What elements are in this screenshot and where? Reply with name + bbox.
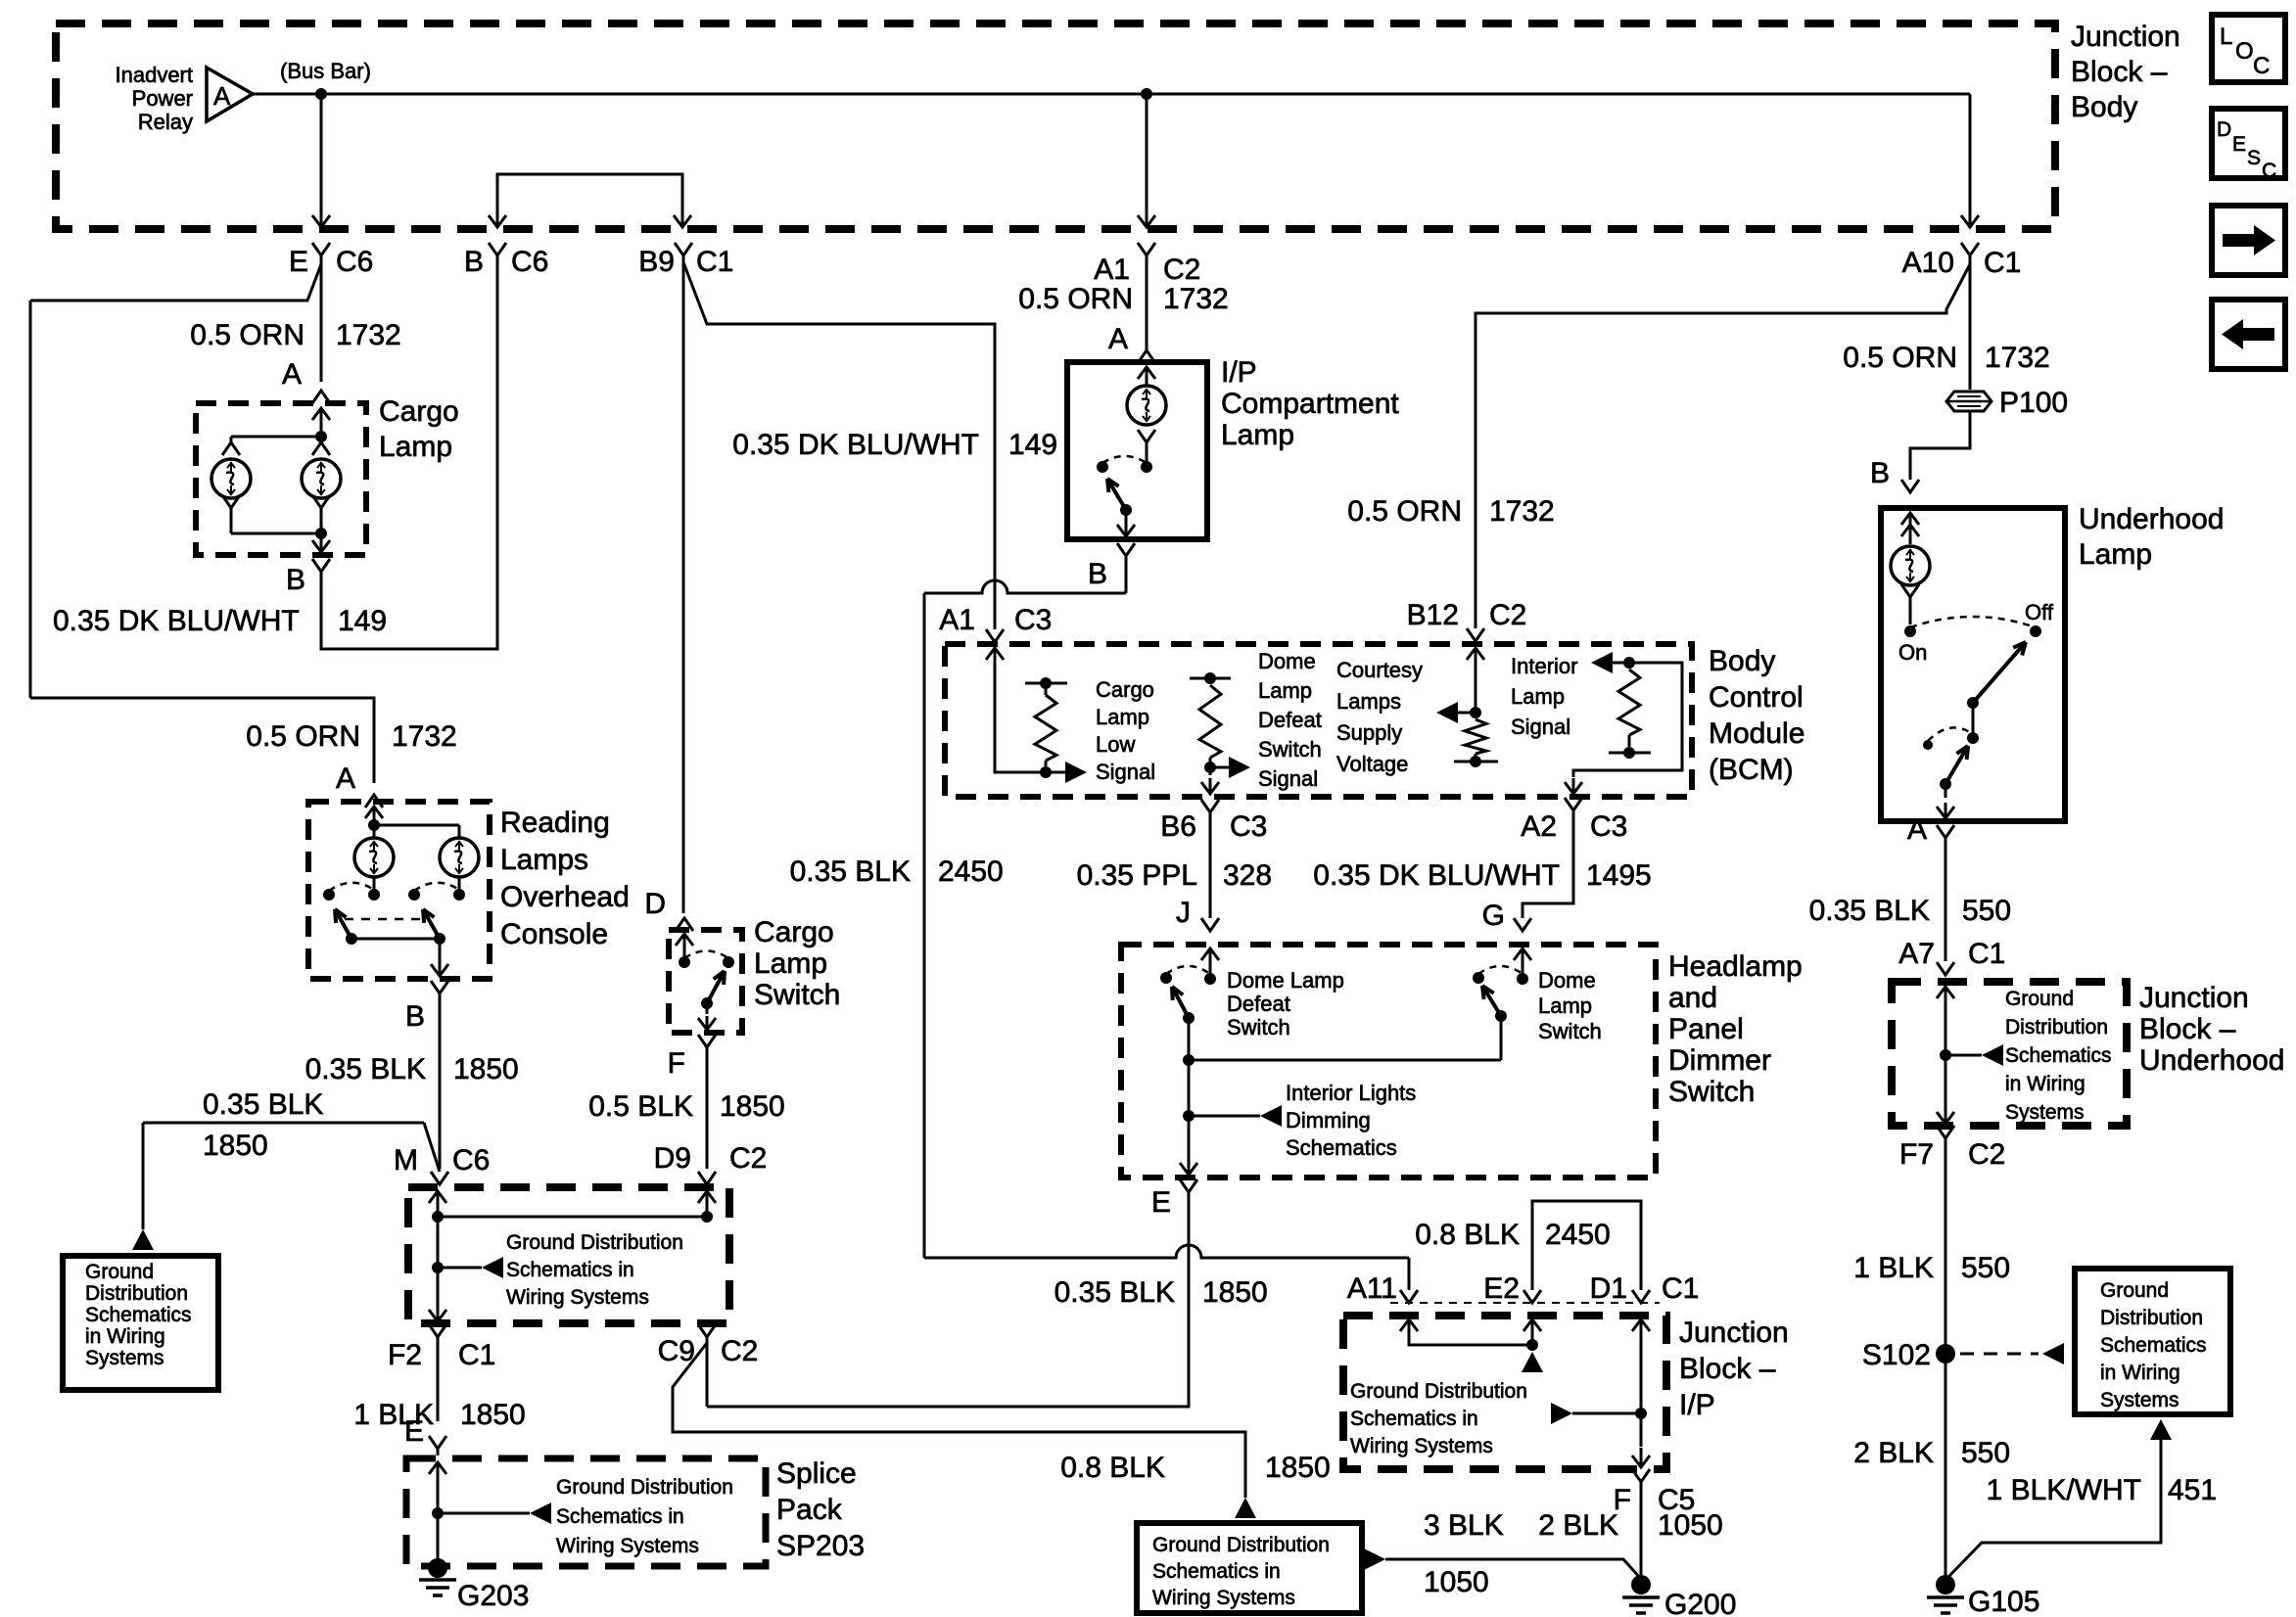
cargo lamp left return — [222, 495, 240, 508]
connector A2/C3 — [1565, 798, 1582, 810]
svg-text:Schematics: Schematics — [85, 1304, 192, 1326]
wire 0.35 BLK 1850 dimmer E to C9/C2 — [707, 1192, 1189, 1407]
svg-text:1850: 1850 — [1202, 1276, 1268, 1309]
svg-text:550: 550 — [1961, 1252, 2010, 1284]
lamp cargo right — [320, 437, 323, 442]
cargo switch contacts — [679, 956, 690, 968]
svg-text:Voltage: Voltage — [1336, 752, 1408, 776]
svg-text:1850: 1850 — [1265, 1452, 1331, 1484]
jb-body exit arrow — [437, 1302, 440, 1321]
reading right switch — [458, 877, 461, 890]
wire 0.5 ORN 1732 A1/C2 to lamp A — [1146, 255, 1148, 350]
jb-body internal link — [437, 1215, 440, 1302]
svg-text:3 BLK: 3 BLK — [1424, 1509, 1504, 1542]
jb-ip E2 feed arrow — [1531, 1319, 1534, 1343]
svg-text:Schematics in: Schematics in — [556, 1505, 684, 1528]
svg-text:F: F — [668, 1047, 685, 1080]
wire 1 BLK 1850 to splice pack E — [437, 1337, 440, 1421]
svg-text:Dome: Dome — [1538, 968, 1596, 993]
connector B6/C3 — [1201, 800, 1219, 812]
svg-text:A: A — [1108, 323, 1128, 355]
svg-text:G105: G105 — [1968, 1586, 2039, 1617]
svg-text:550: 550 — [1962, 895, 2011, 927]
connector dimmer E — [1180, 1179, 1197, 1192]
dome lamp switch lever — [1495, 1010, 1507, 1022]
svg-text:Control: Control — [1709, 681, 1804, 714]
svg-text:E: E — [2232, 133, 2246, 156]
svg-text:D1: D1 — [1590, 1272, 1627, 1305]
svg-text:S102: S102 — [1862, 1339, 1931, 1371]
svg-text:0.35 BLK: 0.35 BLK — [1054, 1276, 1175, 1309]
next page arrow box — [2212, 206, 2285, 275]
connector J — [1201, 918, 1219, 931]
cargo switch feed arrow — [683, 934, 686, 962]
splice S102 — [1936, 1344, 1955, 1363]
svg-text:Lamps: Lamps — [500, 844, 588, 876]
underhood lamp solid box — [1881, 508, 2065, 821]
svg-text:E: E — [289, 246, 308, 278]
wire 0.8 BLK 1850 C9 to ground reference — [673, 1343, 1245, 1498]
svg-text:Junction: Junction — [2071, 21, 2180, 53]
reference arrow ground distribution (jb-underhood) — [1945, 1054, 1982, 1057]
svg-text:C6: C6 — [336, 246, 373, 278]
ground G200 — [1631, 1575, 1651, 1594]
underhood lamp to On contact — [1901, 584, 1919, 597]
svg-text:149: 149 — [338, 605, 387, 637]
underhood switch lever 1 — [1967, 697, 1979, 709]
svg-text:1732: 1732 — [392, 720, 457, 753]
svg-text:E2: E2 — [1483, 1272, 1520, 1305]
svg-text:Switch: Switch — [1668, 1076, 1755, 1108]
svg-text:C9: C9 — [658, 1335, 695, 1367]
svg-text:B9: B9 — [638, 246, 675, 278]
svg-text:Lamp: Lamp — [1221, 419, 1294, 451]
svg-text:A10: A10 — [1902, 247, 1954, 279]
svg-text:Panel: Panel — [1668, 1013, 1744, 1045]
wire 0.5 BLK 1850 F to D9/C2 — [706, 1047, 709, 1169]
svg-text:Block –: Block – — [2139, 1013, 2236, 1045]
jb-ip A11 feed arrow — [1408, 1319, 1411, 1343]
svg-text:1732: 1732 — [1163, 283, 1229, 315]
svg-text:149: 149 — [1008, 429, 1057, 461]
wire branch diagonal into M connector — [424, 1123, 440, 1172]
svg-text:0.8 BLK: 0.8 BLK — [1060, 1452, 1165, 1484]
connector splice E — [429, 1436, 446, 1449]
svg-text:Lamps: Lamps — [1336, 689, 1401, 714]
svg-text:M: M — [394, 1144, 418, 1177]
underhood switch lever 2 — [1940, 778, 1951, 790]
svg-text:1 BLK: 1 BLK — [1853, 1252, 1934, 1284]
svg-text:Wiring Systems: Wiring Systems — [556, 1535, 699, 1557]
svg-text:Ground Distribution: Ground Distribution — [556, 1476, 733, 1499]
dome lamp switch wire to link — [1500, 1016, 1503, 1060]
connector A11 — [1400, 1290, 1418, 1303]
svg-text:0.35 BLK: 0.35 BLK — [305, 1053, 426, 1086]
headlamp and panel dimmer switch dashed box — [1121, 945, 1656, 1178]
reading switch common bar — [351, 938, 440, 941]
ip switch exit arrow — [1125, 510, 1128, 519]
svg-text:Inadvert: Inadvert — [116, 63, 194, 87]
off-page triangle to ground distribution middle — [1235, 1498, 1256, 1518]
wire P100 to underhood B — [1910, 411, 1970, 480]
svg-text:Signal: Signal — [1258, 766, 1318, 791]
svg-text:1732: 1732 — [1985, 342, 2050, 374]
dashed reference line S102 — [1960, 1353, 2038, 1356]
wire bus to E/C6 with arrow — [320, 94, 323, 204]
svg-text:328: 328 — [1223, 859, 1272, 892]
bcm cargo lamp low signal input arrow — [994, 648, 997, 673]
svg-text:G: G — [1482, 900, 1505, 932]
connector F/C5 — [1632, 1469, 1650, 1482]
jb-ip internal link — [1409, 1343, 1532, 1345]
svg-text:451: 451 — [2168, 1474, 2217, 1506]
node defeat-dome link — [1183, 1054, 1195, 1066]
wire 0.35 DK BLU/WHT 1495 to G — [1523, 810, 1573, 918]
svg-text:B: B — [1088, 558, 1107, 590]
svg-text:Reading: Reading — [500, 807, 610, 839]
svg-text:Lamp: Lamp — [2079, 538, 2152, 571]
svg-text:Schematics in: Schematics in — [1350, 1408, 1478, 1430]
wire C9 to E-wire — [706, 1337, 709, 1407]
svg-text:Lamp: Lamp — [379, 431, 452, 463]
connector A7/C1 — [1937, 962, 1954, 975]
svg-text:Courtesy: Courtesy — [1336, 658, 1423, 682]
svg-text:C1: C1 — [1984, 247, 2021, 279]
connector B9/C1 — [675, 243, 692, 255]
wire bus bar — [253, 93, 1970, 96]
wire 1 BLK 550 to S102 — [1945, 1138, 1947, 1354]
desc box — [2212, 109, 2285, 178]
node dimming tap — [1183, 1110, 1195, 1122]
connector underhood A — [1937, 825, 1954, 838]
wire 0.5 ORN 1732 from E/C6 to cargo lamp A — [320, 255, 323, 382]
wire 0.35 PPL 328 to J — [1209, 812, 1212, 918]
svg-text:Console: Console — [500, 918, 608, 950]
svg-text:G203: G203 — [457, 1580, 529, 1612]
svg-text:B: B — [405, 1000, 425, 1033]
svg-text:Cargo: Cargo — [1096, 677, 1154, 702]
svg-text:B6: B6 — [1160, 810, 1196, 843]
reference arrow ground distribution (jb-body) — [438, 1267, 482, 1270]
svg-text:J: J — [1176, 897, 1191, 929]
svg-text:Distribution: Distribution — [2100, 1307, 2203, 1329]
node reading feed split — [368, 819, 380, 831]
wire link to dome lamp switch — [1189, 1059, 1501, 1062]
cargo lamp exit arrow — [320, 534, 323, 552]
ip lamp feed arrow — [1146, 367, 1148, 387]
svg-text:Distribution: Distribution — [2005, 1016, 2108, 1039]
svg-text:Lamp: Lamp — [1096, 705, 1149, 729]
node bus-E tap — [315, 88, 327, 100]
bcm interior signal output wiring — [1573, 663, 1682, 777]
svg-text:0.35 BLK: 0.35 BLK — [1809, 895, 1930, 927]
svg-text:and: and — [1668, 982, 1717, 1014]
lamp ip compartment — [1127, 386, 1166, 425]
svg-text:0.5 BLK: 0.5 BLK — [588, 1090, 693, 1123]
svg-text:C2: C2 — [1489, 599, 1526, 631]
underhood feed arrow double — [1909, 513, 1912, 544]
resistor dome lamp defeat switch signal — [1204, 672, 1216, 684]
svg-text:Lamp: Lamp — [754, 947, 827, 980]
svg-text:B: B — [464, 246, 484, 278]
reference arrow into jb-ip — [1551, 1403, 1572, 1424]
jb-body M feed arrow — [437, 1191, 440, 1215]
svg-text:L: L — [2220, 23, 2232, 50]
svg-text:F7: F7 — [1899, 1138, 1934, 1171]
svg-text:1732: 1732 — [336, 319, 401, 351]
svg-text:Supply: Supply — [1336, 720, 1402, 745]
wire left rail to reading lamps A — [30, 698, 374, 783]
cargo lamp dashed box — [196, 403, 366, 555]
junction block I/P dashed box — [1343, 1316, 1666, 1469]
svg-text:D: D — [644, 888, 666, 920]
svg-text:Dimmer: Dimmer — [1668, 1044, 1771, 1077]
defeat switch wire down — [1188, 1018, 1191, 1116]
jb-ip D1 feed arrow — [1640, 1319, 1643, 1343]
svg-text:Module: Module — [1709, 717, 1804, 750]
svg-text:B: B — [286, 564, 305, 596]
junction block body lower dashed box — [408, 1187, 729, 1323]
wire A10 branch to B12 (0.5 ORN 1732) — [1476, 264, 1970, 628]
grommet P100 — [1946, 392, 1991, 411]
reference arrow interior lights dimming schematics — [1189, 1115, 1260, 1118]
body control module dashed box — [945, 644, 1692, 797]
svg-text:D: D — [2217, 118, 2231, 141]
wire down to A11 junction rail — [923, 593, 926, 1258]
svg-text:Ground: Ground — [2100, 1279, 2169, 1302]
svg-text:0.35 BLK: 0.35 BLK — [790, 855, 911, 888]
node bus-A1 tap — [1141, 88, 1152, 100]
loc box — [2212, 15, 2285, 82]
connector G — [1514, 918, 1531, 931]
connector C9/C2 — [698, 1324, 716, 1337]
svg-text:Power: Power — [132, 86, 193, 111]
reference arrow interior lamp signal — [1611, 662, 1629, 665]
svg-text:Relay: Relay — [138, 110, 193, 134]
connector reading B — [431, 981, 448, 993]
svg-text:C: C — [2262, 160, 2276, 182]
ip lamp to switch — [1138, 430, 1155, 442]
svg-text:Systems: Systems — [85, 1347, 164, 1369]
svg-text:Underhood: Underhood — [2079, 503, 2224, 535]
node jb-body ref tap — [432, 1262, 444, 1273]
underhood exit arrow — [1945, 784, 1947, 798]
svg-text:550: 550 — [1961, 1437, 2010, 1469]
lamp underhood — [1891, 546, 1930, 585]
svg-text:Defeat: Defeat — [1258, 708, 1322, 732]
svg-text:1850: 1850 — [460, 1399, 526, 1431]
dimmer J input arrow — [1209, 948, 1212, 979]
connector ip lamp B — [1117, 543, 1135, 556]
svg-text:1850: 1850 — [453, 1053, 519, 1086]
reading left switch — [373, 877, 376, 890]
connector F2/C1 — [429, 1324, 446, 1337]
svg-text:Wiring Systems: Wiring Systems — [506, 1286, 649, 1309]
svg-text:1495: 1495 — [1586, 859, 1652, 892]
svg-text:C3: C3 — [1230, 810, 1267, 843]
svg-text:Overhead: Overhead — [500, 881, 630, 913]
connector A10/C1 — [1961, 243, 1979, 255]
lamp reading left — [373, 825, 376, 838]
svg-text:1732: 1732 — [1489, 495, 1555, 528]
svg-text:Lamp: Lamp — [1258, 678, 1312, 703]
connector E/C6 — [312, 243, 330, 255]
connector B/C6 — [489, 243, 506, 255]
svg-text:Body: Body — [2071, 91, 2137, 123]
svg-text:2450: 2450 — [938, 855, 1004, 888]
off-page triangle under E2 node — [1522, 1352, 1543, 1372]
jb-ip exit arrow — [1640, 1448, 1643, 1467]
ip switch contacts — [1141, 461, 1152, 473]
svg-text:Schematics in: Schematics in — [1152, 1560, 1281, 1583]
underhood switch On/Off contacts — [1904, 625, 1916, 637]
svg-text:Schematics in: Schematics in — [506, 1259, 634, 1281]
node jb-underhood tap — [1940, 1049, 1951, 1061]
connector A1/C2 — [1138, 243, 1155, 255]
dome lamp defeat switch contacts — [1204, 973, 1216, 985]
svg-text:0.35 DK BLU/WHT: 0.35 DK BLU/WHT — [1313, 859, 1560, 892]
svg-text:Systems: Systems — [2005, 1101, 2085, 1124]
svg-text:A: A — [213, 81, 231, 111]
svg-text:0.5 ORN: 0.5 ORN — [246, 720, 360, 753]
svg-text:Compartment: Compartment — [1221, 388, 1399, 420]
lamp reading right — [458, 825, 461, 838]
wire 0.35 BLK 550 to A7/C1 — [1945, 838, 1947, 961]
svg-text:Ground Distribution: Ground Distribution — [506, 1231, 683, 1254]
svg-text:C1: C1 — [1968, 938, 2005, 970]
svg-text:C6: C6 — [452, 1144, 490, 1177]
svg-text:E: E — [404, 1415, 424, 1448]
resistor cargo lamp low signal — [1040, 766, 1052, 778]
svg-text:On: On — [1898, 640, 1927, 665]
svg-text:Junction: Junction — [2139, 982, 2249, 1014]
svg-text:in Wiring: in Wiring — [2005, 1073, 2085, 1095]
reading switch mechanical link dashed — [345, 918, 421, 921]
wire 0.35 DK BLU/WHT 149 cargo B to B/C6 — [321, 255, 497, 649]
ip switch lever — [1120, 504, 1132, 516]
svg-text:0.5 ORN: 0.5 ORN — [190, 319, 305, 351]
svg-text:0.5 ORN: 0.5 ORN — [1843, 342, 1957, 374]
svg-text:in Wiring: in Wiring — [85, 1325, 165, 1348]
svg-text:Splice: Splice — [776, 1457, 857, 1490]
underhood switch 2 contacts — [1923, 740, 1933, 750]
svg-text:A: A — [282, 358, 302, 391]
svg-text:1 BLK/WHT: 1 BLK/WHT — [1987, 1474, 2141, 1506]
svg-text:C3: C3 — [1014, 604, 1052, 636]
svg-text:Ground: Ground — [85, 1261, 154, 1283]
cargo lamp feed arrow — [320, 408, 323, 437]
ground G203 — [428, 1558, 447, 1578]
svg-text:1850: 1850 — [720, 1090, 785, 1123]
svg-text:(BCM): (BCM) — [1709, 754, 1794, 786]
svg-text:Signal: Signal — [1511, 715, 1570, 739]
svg-text:2 BLK: 2 BLK — [1853, 1437, 1934, 1469]
wire branch B9 to BCM A1 (0.35 DK BLU/WHT 149) — [683, 262, 995, 629]
svg-text:0.8 BLK: 0.8 BLK — [1415, 1219, 1520, 1251]
wire ip-B to BCM A1 node (horizontal with hop) — [1125, 556, 1128, 593]
svg-text:Dome: Dome — [1258, 649, 1316, 673]
dome lamp switch contacts — [1517, 973, 1528, 985]
svg-text:SP203: SP203 — [776, 1530, 865, 1562]
svg-text:Ground Distribution: Ground Distribution — [1350, 1380, 1527, 1403]
reading lamps feed arrow — [373, 807, 376, 828]
svg-text:1850: 1850 — [203, 1130, 268, 1162]
reference arrow dome defeat signal — [1210, 766, 1231, 769]
connector E2 — [1523, 1290, 1541, 1303]
bcm resistor cargo lamp low signal wiring — [995, 673, 1046, 772]
svg-text:I/P: I/P — [1679, 1389, 1715, 1421]
ground distribution reference box left — [63, 1256, 218, 1390]
node splice tap — [432, 1507, 444, 1519]
svg-text:Pack: Pack — [776, 1494, 843, 1526]
svg-text:A2: A2 — [1521, 810, 1557, 843]
svg-text:Ground Distribution: Ground Distribution — [1152, 1534, 1330, 1556]
svg-text:Dimming: Dimming — [1286, 1108, 1371, 1132]
wire branch E/C6 to left rail — [30, 264, 321, 300]
svg-text:Cargo: Cargo — [379, 395, 459, 428]
svg-text:Junction: Junction — [1679, 1317, 1789, 1349]
svg-text:O: O — [2235, 38, 2254, 65]
top junction block (Junction Block - Body) dashed outline — [56, 23, 2055, 229]
svg-text:2450: 2450 — [1545, 1219, 1611, 1251]
wire 2 BLK 550 to G105 — [1945, 1354, 1947, 1581]
connector cargo switch F — [698, 1035, 716, 1047]
svg-text:S: S — [2247, 147, 2261, 169]
wire 0.35 BLK 1850 horizontal to A11 — [924, 1245, 1409, 1258]
svg-text:1050: 1050 — [1658, 1509, 1723, 1542]
svg-text:C3: C3 — [1590, 810, 1627, 843]
cargo switch exit arrow — [706, 1003, 709, 1014]
svg-text:B: B — [1870, 457, 1890, 489]
svg-text:0.35 DK BLU/WHT: 0.35 DK BLU/WHT — [732, 429, 979, 461]
ground distribution reference box middle — [1137, 1523, 1362, 1613]
node cargo feed split — [315, 431, 327, 442]
svg-text:Lamp: Lamp — [1511, 684, 1565, 709]
connector B12/C2 — [1467, 628, 1484, 641]
cargo switch lever — [701, 997, 713, 1009]
svg-text:Wiring Systems: Wiring Systems — [1350, 1435, 1493, 1457]
jb-underhood exit arrow — [1945, 1104, 1947, 1124]
connector D9/C2 — [698, 1172, 716, 1184]
svg-text:C: C — [2253, 53, 2270, 79]
wire 0.35 BLK 1850 reading B to M/C6 — [439, 993, 442, 1169]
connector D1/C1 — [1632, 1290, 1650, 1303]
resistor courtesy lamps supply voltage — [1475, 648, 1477, 673]
svg-text:Schematics: Schematics — [2005, 1044, 2112, 1067]
svg-text:A: A — [1907, 813, 1927, 846]
jb-body D9 feed arrow — [706, 1191, 709, 1215]
jb-ip connector strip dashed line — [1390, 1302, 1660, 1304]
relay A triangle symbol — [207, 68, 253, 121]
wire 0.8 BLK 2450 loop E2 to D1 — [1532, 1201, 1641, 1290]
reference arrow ground distribution (splice) — [438, 1512, 530, 1515]
svg-text:0.5 ORN: 0.5 ORN — [1018, 283, 1133, 315]
dimmer G input arrow — [1522, 948, 1524, 979]
svg-text:A1: A1 — [939, 604, 975, 636]
reference arrow courtesy lamps supply voltage — [1454, 712, 1476, 715]
resistor interior lamp signal — [1623, 657, 1635, 669]
svg-text:B12: B12 — [1407, 599, 1459, 631]
svg-text:2 BLK: 2 BLK — [1538, 1509, 1618, 1542]
svg-text:Switch: Switch — [1538, 1019, 1602, 1043]
svg-text:C1: C1 — [696, 246, 733, 278]
svg-text:Distribution: Distribution — [85, 1282, 188, 1305]
wire 1 BLK/WHT 451 from ref box to G105 — [2150, 1419, 2172, 1440]
cargo lamp right return / node — [312, 495, 330, 508]
svg-text:Wiring Systems: Wiring Systems — [1152, 1587, 1295, 1609]
svg-text:Headlamp: Headlamp — [1668, 950, 1803, 983]
wire 2 BLK 1050 to G200 — [1640, 1482, 1643, 1579]
